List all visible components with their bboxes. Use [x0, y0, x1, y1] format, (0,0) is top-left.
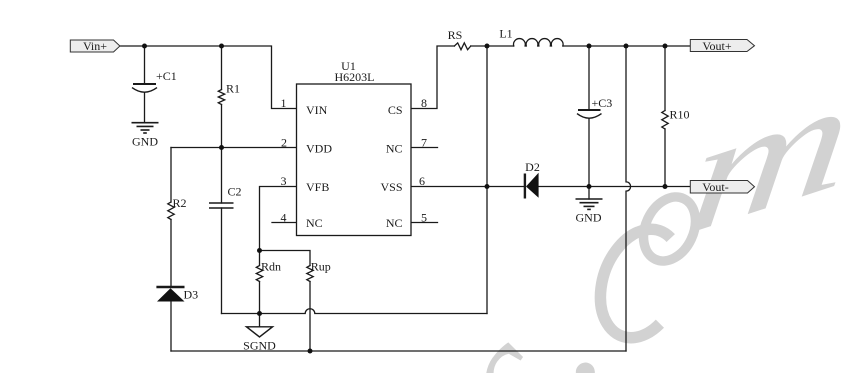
resistor R1	[218, 90, 224, 105]
svg-text:Vout-: Vout-	[702, 180, 728, 194]
node return rail top junction	[624, 44, 629, 49]
svg-text:D3: D3	[184, 288, 199, 302]
svg-text:D2: D2	[525, 160, 540, 174]
node GND VSS junction	[587, 184, 592, 189]
svg-text:Vin+: Vin+	[83, 39, 107, 53]
wire Rup bottom to bottom rail	[309, 282, 311, 352]
wire R10 top	[664, 46, 666, 111]
node C3 top junction	[587, 44, 592, 49]
node Rup bottom junction	[308, 349, 313, 354]
svg-text:C2: C2	[228, 185, 242, 199]
wire SGND stub	[259, 314, 261, 327]
wire top rail from Vin+ to pin 1 corner	[120, 46, 297, 109]
svg-text:VFB: VFB	[306, 180, 329, 194]
node CS sense VSS junction	[485, 184, 490, 189]
svg-text:SGND: SGND	[243, 339, 276, 353]
svg-text:NC: NC	[306, 216, 323, 230]
svg-text:6: 6	[419, 174, 425, 188]
resistor RS	[454, 43, 470, 50]
svg-text:5: 5	[421, 211, 427, 225]
wire NC pin 4 stub	[272, 222, 297, 224]
svg-text:NC: NC	[386, 216, 403, 230]
wire feedback rail with hop over Rup wire	[222, 309, 488, 314]
svg-text:VDD: VDD	[306, 142, 332, 156]
wire output return vertical with hop over VSS line	[626, 46, 631, 351]
wire C2 bottom	[221, 208, 223, 314]
wire R2 to D3	[170, 220, 172, 288]
svg-text:+C3: +C3	[592, 96, 613, 110]
wire left column R2 top	[170, 148, 172, 203]
wire C1 to GND	[144, 93, 146, 123]
capacitor C2	[209, 203, 234, 208]
node R10 top junction	[663, 44, 668, 49]
ground GND at output	[576, 199, 603, 209]
resistor R10	[662, 111, 668, 130]
svg-text:4: 4	[281, 211, 287, 225]
svg-text:R2: R2	[173, 196, 187, 210]
node R10 bottom junction	[663, 184, 668, 189]
wire C3 top	[588, 46, 590, 110]
wire GND stub at output	[588, 187, 590, 200]
svg-text:R10: R10	[670, 108, 690, 122]
wire NC pin 7 stub	[411, 147, 438, 149]
wire C1 top	[144, 46, 146, 84]
svg-text:R1: R1	[226, 82, 240, 96]
wire RS to L1	[471, 45, 514, 47]
wire VSS line pin 6 to D2	[411, 186, 524, 188]
node VFB junction	[257, 248, 262, 253]
capacitor C3	[577, 110, 602, 118]
wire Rdn bottom	[259, 282, 261, 314]
node C1 top junction	[142, 44, 147, 49]
wire R1 top	[221, 46, 223, 90]
node Vout+ tag	[690, 40, 754, 52]
svg-text:Rdn: Rdn	[261, 260, 281, 274]
diode D3	[156, 287, 184, 302]
svg-text:GND: GND	[132, 134, 158, 148]
wire C2 top	[221, 148, 223, 204]
capacitor C1	[132, 84, 157, 92]
node Vin+ tag	[70, 40, 120, 52]
svg-text:H6203L: H6203L	[335, 70, 375, 84]
svg-text:Rup: Rup	[311, 260, 331, 274]
wire node to Rup top	[260, 251, 311, 266]
node Vout- tag	[690, 181, 754, 194]
svg-text:NC: NC	[386, 142, 403, 156]
IC U1 H6203L body	[297, 84, 412, 236]
svg-text:VSS: VSS	[380, 180, 402, 194]
svg-text:3: 3	[281, 174, 287, 188]
node CS sense top junction	[485, 44, 490, 49]
wire L1 to Vout+	[563, 45, 690, 47]
wire C3 bottom	[588, 119, 590, 187]
svg-text:8: 8	[421, 96, 427, 110]
wire pin 8 to top rail	[411, 46, 454, 109]
node SGND junction	[257, 311, 262, 316]
svg-text:7: 7	[421, 136, 427, 150]
wire VDD line pin 2	[171, 147, 297, 149]
resistor Rup	[307, 266, 313, 282]
svg-text:Vout+: Vout+	[702, 39, 731, 53]
svg-text:RS: RS	[448, 28, 463, 42]
ground SGND triangle	[247, 327, 273, 337]
watermark .Com	[410, 43, 850, 373]
svg-text:CS: CS	[388, 103, 403, 117]
wire D3 to bottom rail	[170, 302, 172, 352]
ground GND under C1	[132, 123, 159, 133]
wire R1 bottom	[221, 105, 223, 148]
node R1 bottom junction	[219, 145, 224, 150]
svg-text:VIN: VIN	[306, 103, 328, 117]
diode D2	[525, 173, 539, 199]
wire VFB pin 3 to node	[260, 187, 297, 251]
resistor Rdn	[256, 251, 262, 282]
wire R10 bottom	[664, 129, 666, 187]
wire bottom rail	[171, 350, 626, 352]
inductor L1	[514, 39, 564, 46]
svg-text:+C1: +C1	[156, 69, 177, 83]
node R1 top junction	[219, 44, 224, 49]
resistor R2	[168, 202, 174, 220]
wire D2 to Vout-	[539, 186, 690, 188]
wire CS sense vertical	[486, 46, 488, 314]
svg-text:2: 2	[281, 136, 287, 150]
svg-text:L1: L1	[499, 27, 512, 41]
svg-text:1: 1	[281, 96, 287, 110]
svg-text:GND: GND	[576, 211, 602, 225]
wire NC pin 5 stub	[411, 222, 438, 224]
